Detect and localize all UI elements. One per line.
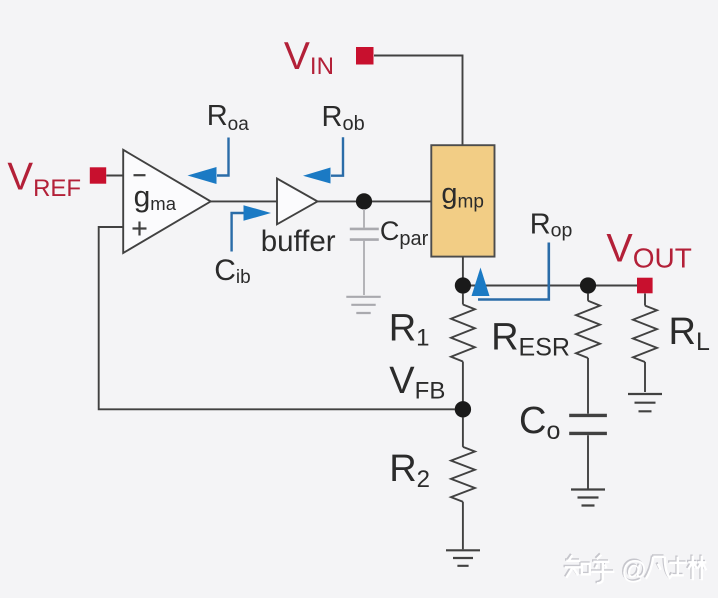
op-amp minus sign <box>134 174 146 176</box>
node output junction dot <box>455 277 471 293</box>
wire VOUT pad to RL <box>644 294 646 306</box>
arrow Cib stem <box>232 213 244 252</box>
svg-text:buffer: buffer <box>261 225 336 258</box>
wire buffer output to gmp <box>318 200 432 202</box>
svg-text:@: @ <box>621 557 647 585</box>
wire output node to R1 <box>462 293 464 304</box>
wire Cpar top (gray) <box>363 209 365 228</box>
pad VOUT <box>637 278 653 294</box>
wire output node to VOUT pad <box>463 285 637 287</box>
wire R2 to ground <box>462 502 464 550</box>
watermark zhihu <box>564 554 707 585</box>
wire VREF pad to opamp <box>106 175 123 177</box>
node VFB junction dot <box>455 401 471 417</box>
resistor RESR <box>576 301 600 358</box>
ground for Cpar (gray) <box>346 297 380 313</box>
capacitor Co <box>569 415 607 433</box>
wire feedback from VFB to opamp plus input <box>99 227 455 409</box>
arrow Rop head <box>472 268 490 297</box>
pad VIN <box>356 47 374 65</box>
node A junction dot <box>356 193 372 209</box>
wire gmp bottom to output node <box>462 257 464 281</box>
op-amp plus sign <box>133 222 147 236</box>
capacitor Cpar <box>350 229 379 240</box>
wire Cpar bottom (gray) <box>363 241 365 295</box>
arrow Rop stem <box>478 243 549 300</box>
buffer triangle <box>277 179 318 225</box>
wire Co to ground <box>587 435 589 488</box>
wire RESR to Co <box>587 358 589 414</box>
node ESR junction dot <box>580 277 596 293</box>
arrow Cib head <box>244 205 272 221</box>
resistor RL <box>633 306 657 362</box>
resistor R2 <box>451 447 475 502</box>
arrow Roa head <box>188 167 217 184</box>
wire RL to ground <box>644 362 646 392</box>
wire ESR node to RESR <box>587 293 589 301</box>
arrow Roa stem <box>217 138 229 176</box>
pad VREF <box>90 167 106 183</box>
arrow Rob head <box>303 168 331 184</box>
wire R1 to VFB node <box>462 362 464 406</box>
wire VIN pad to gmp top <box>374 56 463 146</box>
ground for Co <box>571 490 605 506</box>
ground for R2 <box>446 550 480 566</box>
block gmp <box>431 145 494 256</box>
wire VFB node to R2 <box>462 417 464 447</box>
op-amp gma triangle <box>123 150 211 253</box>
arrow Rob stem <box>331 137 343 175</box>
wire opamp output to buffer <box>211 200 277 202</box>
ground for RL <box>628 394 662 411</box>
resistor R1 <box>451 305 475 362</box>
